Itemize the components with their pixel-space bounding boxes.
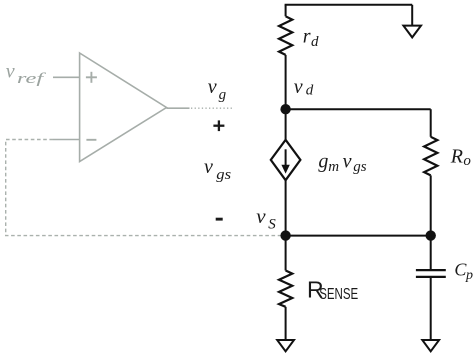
wire op-amp output dotted to node v_g <box>191 107 233 109</box>
capacitor C_p <box>416 269 446 271</box>
svg-text:o: o <box>463 153 471 169</box>
label minus polarity of v_gs <box>216 218 223 221</box>
wire dashed feedback from minus input to node v_S <box>6 140 281 236</box>
label R_SENSE <box>307 276 358 302</box>
wire from top rail to r_d <box>285 5 287 16</box>
label R_o <box>450 146 472 169</box>
resistor R_o <box>424 137 437 176</box>
label v_ref <box>6 61 46 88</box>
ground bottom left <box>277 340 294 351</box>
svg-text:R: R <box>450 146 463 168</box>
wire r_d to current source through node v_d <box>285 55 287 140</box>
label C_p <box>454 260 473 284</box>
label v_g <box>208 76 227 103</box>
svg-text:v: v <box>208 76 217 98</box>
resistor R_SENSE <box>279 271 292 307</box>
wire op-amp minus input <box>53 139 80 141</box>
wire R_SENSE to ground <box>285 307 287 340</box>
wire capacitor to ground <box>430 277 432 340</box>
svg-text:v: v <box>204 156 213 178</box>
node junction R_o / C_p <box>426 230 436 240</box>
svg-text:SENSE: SENSE <box>319 286 358 303</box>
svg-text:v: v <box>256 204 266 228</box>
wire op-amp output solid <box>167 107 190 109</box>
ground top right <box>403 26 421 38</box>
svg-text:g: g <box>318 150 328 172</box>
label v_gs <box>204 156 231 183</box>
svg-text:S: S <box>268 217 276 233</box>
svg-text:d: d <box>306 83 314 99</box>
wire current source to R_SENSE through node v_S <box>285 180 287 270</box>
svg-text:r: r <box>303 25 311 47</box>
svg-text:p: p <box>465 268 473 283</box>
wire R_o down to junction <box>430 175 432 235</box>
label g_m v_gs <box>318 150 366 174</box>
label r_d <box>303 25 319 49</box>
svg-text:ref: ref <box>17 71 46 87</box>
svg-text:g: g <box>219 87 227 103</box>
ground bottom right <box>422 340 439 351</box>
svg-text:v: v <box>6 61 15 83</box>
wire node v_S to junction <box>286 235 431 237</box>
op-amp U1 <box>80 53 167 162</box>
resistor r_d <box>279 16 292 55</box>
label plus polarity of v_gs <box>213 120 224 131</box>
svg-text:m: m <box>328 159 339 175</box>
current source G1 arrow <box>285 149 287 166</box>
wire ground stub top right <box>411 5 413 26</box>
node v_d <box>280 104 290 114</box>
wire junction to capacitor C_p <box>430 236 432 271</box>
svg-text:v: v <box>294 76 303 98</box>
svg-text:gs: gs <box>216 167 231 183</box>
current source G1 diamond <box>271 140 301 180</box>
wire top rail <box>285 4 413 6</box>
wire node v_d to right rail <box>286 108 431 110</box>
svg-text:gs: gs <box>353 159 367 175</box>
svg-text:v: v <box>343 150 352 172</box>
wire right rail down to R_o <box>430 109 432 137</box>
svg-text:d: d <box>311 34 319 50</box>
label v_S <box>256 204 276 233</box>
node v_S <box>280 230 290 240</box>
label v_d <box>294 76 314 99</box>
wire op-amp plus input <box>53 76 80 78</box>
